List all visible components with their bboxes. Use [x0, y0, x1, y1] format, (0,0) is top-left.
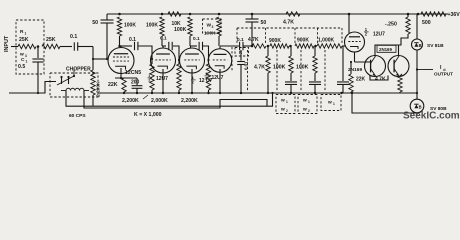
node string j2: [289, 45, 292, 48]
capacitor 200: [131, 78, 142, 93]
transistor Q2 2N169: [388, 56, 409, 77]
svg-text:+36V: +36V: [448, 12, 460, 18]
svg-text:4.7K: 4.7K: [254, 65, 265, 71]
label half 12U7 out: [364, 27, 385, 38]
resistor 25K second: [42, 37, 60, 49]
resistor grid leak 2200K b: [177, 59, 181, 93]
svg-text:1,000K: 1,000K: [318, 38, 335, 44]
capacitor 0.1 input: [60, 34, 93, 51]
chopper contacts: [57, 68, 75, 85]
svg-text:25K: 25K: [19, 37, 29, 43]
dashed box divider area: [232, 28, 342, 91]
wire T3 cathode: [191, 69, 193, 93]
wire string to grid: [342, 45, 346, 47]
svg-text:2: 2: [365, 32, 368, 37]
resistor 100K plate T3: [174, 17, 192, 46]
svg-text:0.1: 0.1: [70, 34, 77, 40]
svg-text:C: C: [21, 57, 25, 63]
svg-text:60 CPS: 60 CPS: [69, 113, 86, 119]
svg-text:1: 1: [25, 32, 27, 36]
resistor 100K plate T2: [146, 17, 164, 46]
node rail junction x408: [407, 13, 410, 16]
svg-text:w: w: [280, 99, 285, 104]
tube V1 12CN5: [108, 48, 134, 74]
label K=X1000: [134, 112, 162, 118]
svg-text:1: 1: [26, 60, 28, 64]
tube V2 half 12U7: [151, 48, 176, 73]
diode D2 SV80B: [410, 99, 424, 113]
wire T1 cathode: [115, 68, 137, 79]
svg-text:R: R: [239, 50, 243, 55]
wire ground rail: [100, 92, 418, 94]
svg-text:2: 2: [148, 79, 150, 83]
resistor 22K cathode: [108, 78, 126, 93]
node rail junction x418: [417, 13, 420, 16]
resistor 100K shunt b: [296, 46, 321, 93]
resistor 22K right: [349, 62, 366, 93]
resistor 4.7K right: [375, 74, 402, 93]
svg-text:100K: 100K: [273, 65, 286, 71]
svg-text:22K: 22K: [356, 77, 366, 83]
resistor 10K: [168, 12, 181, 27]
label SV81B: [427, 43, 444, 49]
label Id OUTPUT: [434, 65, 453, 77]
capacitor 0.1 coupling1: [120, 37, 153, 60]
svg-text:2: 2: [205, 77, 207, 81]
label INPUT: [4, 35, 10, 52]
capacitor lamp leg: [337, 46, 349, 93]
svg-text:2N169: 2N169: [379, 47, 392, 52]
wire left ground: [9, 82, 56, 95]
capacitor 0.1 coupling2: [160, 36, 179, 61]
node rail junction x162: [161, 13, 164, 16]
wire B+ rail: [107, 13, 448, 15]
wire T4 cathode: [219, 69, 221, 93]
resistor 100K shunt a: [273, 46, 297, 93]
svg-text:2,200K: 2,200K: [181, 98, 198, 104]
svg-text:B: B: [419, 104, 422, 109]
label 60 CPS: [69, 113, 86, 119]
svg-text:w: w: [280, 108, 285, 113]
svg-text:w: w: [327, 101, 332, 106]
svg-text:1: 1: [286, 100, 288, 104]
label 2,200K b: [181, 98, 198, 104]
node rail junction x119: [118, 13, 121, 16]
wire T3 plate: [190, 46, 192, 49]
svg-text:100K: 100K: [146, 23, 158, 29]
node input net: [37, 45, 40, 48]
tube V4 half 12U7: [208, 49, 232, 73]
wire T1 plate: [118, 45, 121, 48]
capacitor 50 mid: [246, 14, 267, 47]
svg-text:12CN5: 12CN5: [125, 70, 141, 76]
resistor 4.7K rail: [283, 12, 300, 26]
svg-text:25K: 25K: [46, 37, 56, 43]
svg-text:w: w: [19, 53, 24, 58]
dashed box w1 w2 b: [298, 95, 317, 114]
label 2N169 second: [348, 67, 362, 73]
svg-text:100K: 100K: [174, 27, 187, 33]
svg-text:22K: 22K: [108, 82, 118, 88]
svg-text:1: 1: [205, 72, 207, 76]
capacitor 50 left: [92, 14, 113, 59]
svg-text:0.1: 0.1: [160, 36, 167, 42]
wire diode1 to ground: [416, 50, 418, 93]
svg-text:w: w: [302, 108, 307, 113]
svg-text:50: 50: [92, 20, 98, 26]
svg-text:2,000K: 2,000K: [151, 98, 168, 104]
diode D1 SV81B: [412, 39, 423, 50]
wire Q1 base: [350, 61, 371, 63]
label 2N169 boxed: [377, 45, 396, 52]
wire collector bus: [375, 34, 408, 56]
label +36V: [448, 12, 460, 18]
svg-text:3: 3: [212, 25, 214, 29]
svg-text:12U7: 12U7: [156, 76, 168, 82]
node string j3: [314, 45, 317, 48]
label half 12U7 c: [205, 72, 224, 81]
capacitor C1 0.5: [18, 47, 44, 94]
tube V5 half 12U7: [345, 32, 365, 52]
wire diode2 top: [416, 92, 418, 99]
node rail junction x190: [189, 13, 192, 16]
wire diode2 bottom: [416, 113, 418, 116]
svg-text:12U7: 12U7: [212, 75, 224, 81]
svg-text:900K: 900K: [297, 38, 309, 44]
resistor grid leak 2200K c: [206, 59, 210, 93]
svg-text:3: 3: [25, 54, 27, 58]
svg-text:2: 2: [308, 109, 310, 113]
watermark SeekIC.com: [403, 110, 460, 121]
label CHOPPER: [66, 67, 91, 73]
chopper drive coil: [61, 88, 89, 90]
label 12CN5: [125, 70, 141, 76]
node rail junction x219: [218, 13, 221, 16]
wire diode1 drop: [416, 14, 418, 39]
svg-text:INPUT: INPUT: [4, 35, 10, 52]
svg-text:w: w: [302, 99, 307, 104]
resistor 100K plate T1: [117, 17, 136, 46]
svg-text:900K: 900K: [269, 38, 281, 44]
svg-text:B: B: [419, 43, 422, 48]
wire T4 plate: [219, 46, 221, 49]
wire T2 cathode: [162, 69, 164, 93]
capacitor 0.01: [237, 50, 248, 93]
svg-text:SeekIC.com: SeekIC.com: [403, 110, 460, 121]
svg-text:0.1: 0.1: [193, 36, 200, 42]
transistor Q1 2N169: [365, 56, 386, 77]
wire T5 plate: [348, 13, 351, 33]
resistor 900K a: [269, 38, 289, 48]
svg-text:I: I: [440, 65, 442, 71]
dashed box w1 c: [321, 95, 341, 111]
label half 12U7 a: [148, 74, 169, 83]
resistor 4.7K shunt: [254, 46, 270, 93]
svg-text:100K: 100K: [296, 65, 309, 71]
tube V3 half 12U7: [180, 48, 205, 73]
label SV80B: [430, 106, 447, 112]
resistor 500: [421, 12, 446, 26]
svg-text:OUTPUT: OUTPUT: [434, 72, 453, 77]
resistor grid leak 2000K: [150, 58, 154, 93]
resistor 900K b: [295, 38, 314, 49]
svg-text:SV 81B: SV 81B: [427, 43, 444, 49]
svg-text:500: 500: [422, 20, 431, 26]
svg-text:50: 50: [261, 20, 267, 26]
svg-text:100K: 100K: [124, 23, 136, 29]
wire Q1 emitter net: [370, 76, 388, 81]
svg-text:K = X 1,000: K = X 1,000: [134, 112, 162, 118]
wire T5 cathode: [354, 52, 356, 62]
label 2,200K a: [122, 95, 148, 104]
svg-text:2N169: 2N169: [348, 67, 362, 73]
svg-text:4.7K: 4.7K: [283, 20, 294, 26]
wire input: [11, 46, 18, 48]
wire bottom right box: [352, 93, 417, 113]
svg-text:0.5: 0.5: [18, 64, 25, 70]
capacitor 0.1 coupling3: [190, 36, 209, 60]
svg-text:R: R: [20, 29, 24, 35]
node rail junction x252: [251, 13, 254, 16]
label half 12U7 b: [191, 76, 213, 85]
wire to chopper arm: [92, 47, 108, 61]
svg-text:-.250: -.250: [385, 22, 397, 28]
wire ground return bottom: [66, 91, 274, 109]
svg-text:4.7K: 4.7K: [248, 37, 259, 43]
svg-text:100K: 100K: [204, 31, 216, 37]
dashed box w1 w2 a: [276, 95, 295, 114]
svg-text:CHOPPER: CHOPPER: [66, 67, 91, 73]
svg-text:12U7: 12U7: [373, 32, 385, 38]
svg-text:1: 1: [308, 100, 310, 104]
dashed box chopper: [50, 73, 98, 97]
potentiometer W3 100K: [203, 17, 222, 46]
resistor 4.7K series: [248, 37, 266, 48]
potentiometer .250: [385, 14, 410, 34]
resistor 2200K chopper shunt: [91, 59, 102, 106]
dashed box input network: [16, 20, 44, 74]
svg-text:200: 200: [131, 80, 140, 86]
wire output stub: [416, 68, 433, 70]
label 2,000K: [151, 98, 168, 104]
dashed box R: [235, 48, 249, 57]
node string j1: [267, 45, 270, 48]
svg-text:4.7K: 4.7K: [375, 77, 386, 83]
node grid T1: [106, 58, 108, 60]
svg-text:2,200K: 2,200K: [122, 98, 139, 104]
resistor 1000K: [317, 38, 342, 49]
svg-text:1: 1: [148, 74, 150, 78]
svg-text:1: 1: [333, 102, 335, 106]
wire T2 plate: [162, 46, 163, 49]
svg-text:0.1: 0.1: [129, 37, 136, 43]
capacitor 0.1 coupling4: [220, 37, 252, 50]
svg-text:2,200K: 2,200K: [96, 81, 102, 97]
svg-text:2: 2: [286, 109, 288, 113]
resistor R1 25K: [18, 29, 36, 58]
